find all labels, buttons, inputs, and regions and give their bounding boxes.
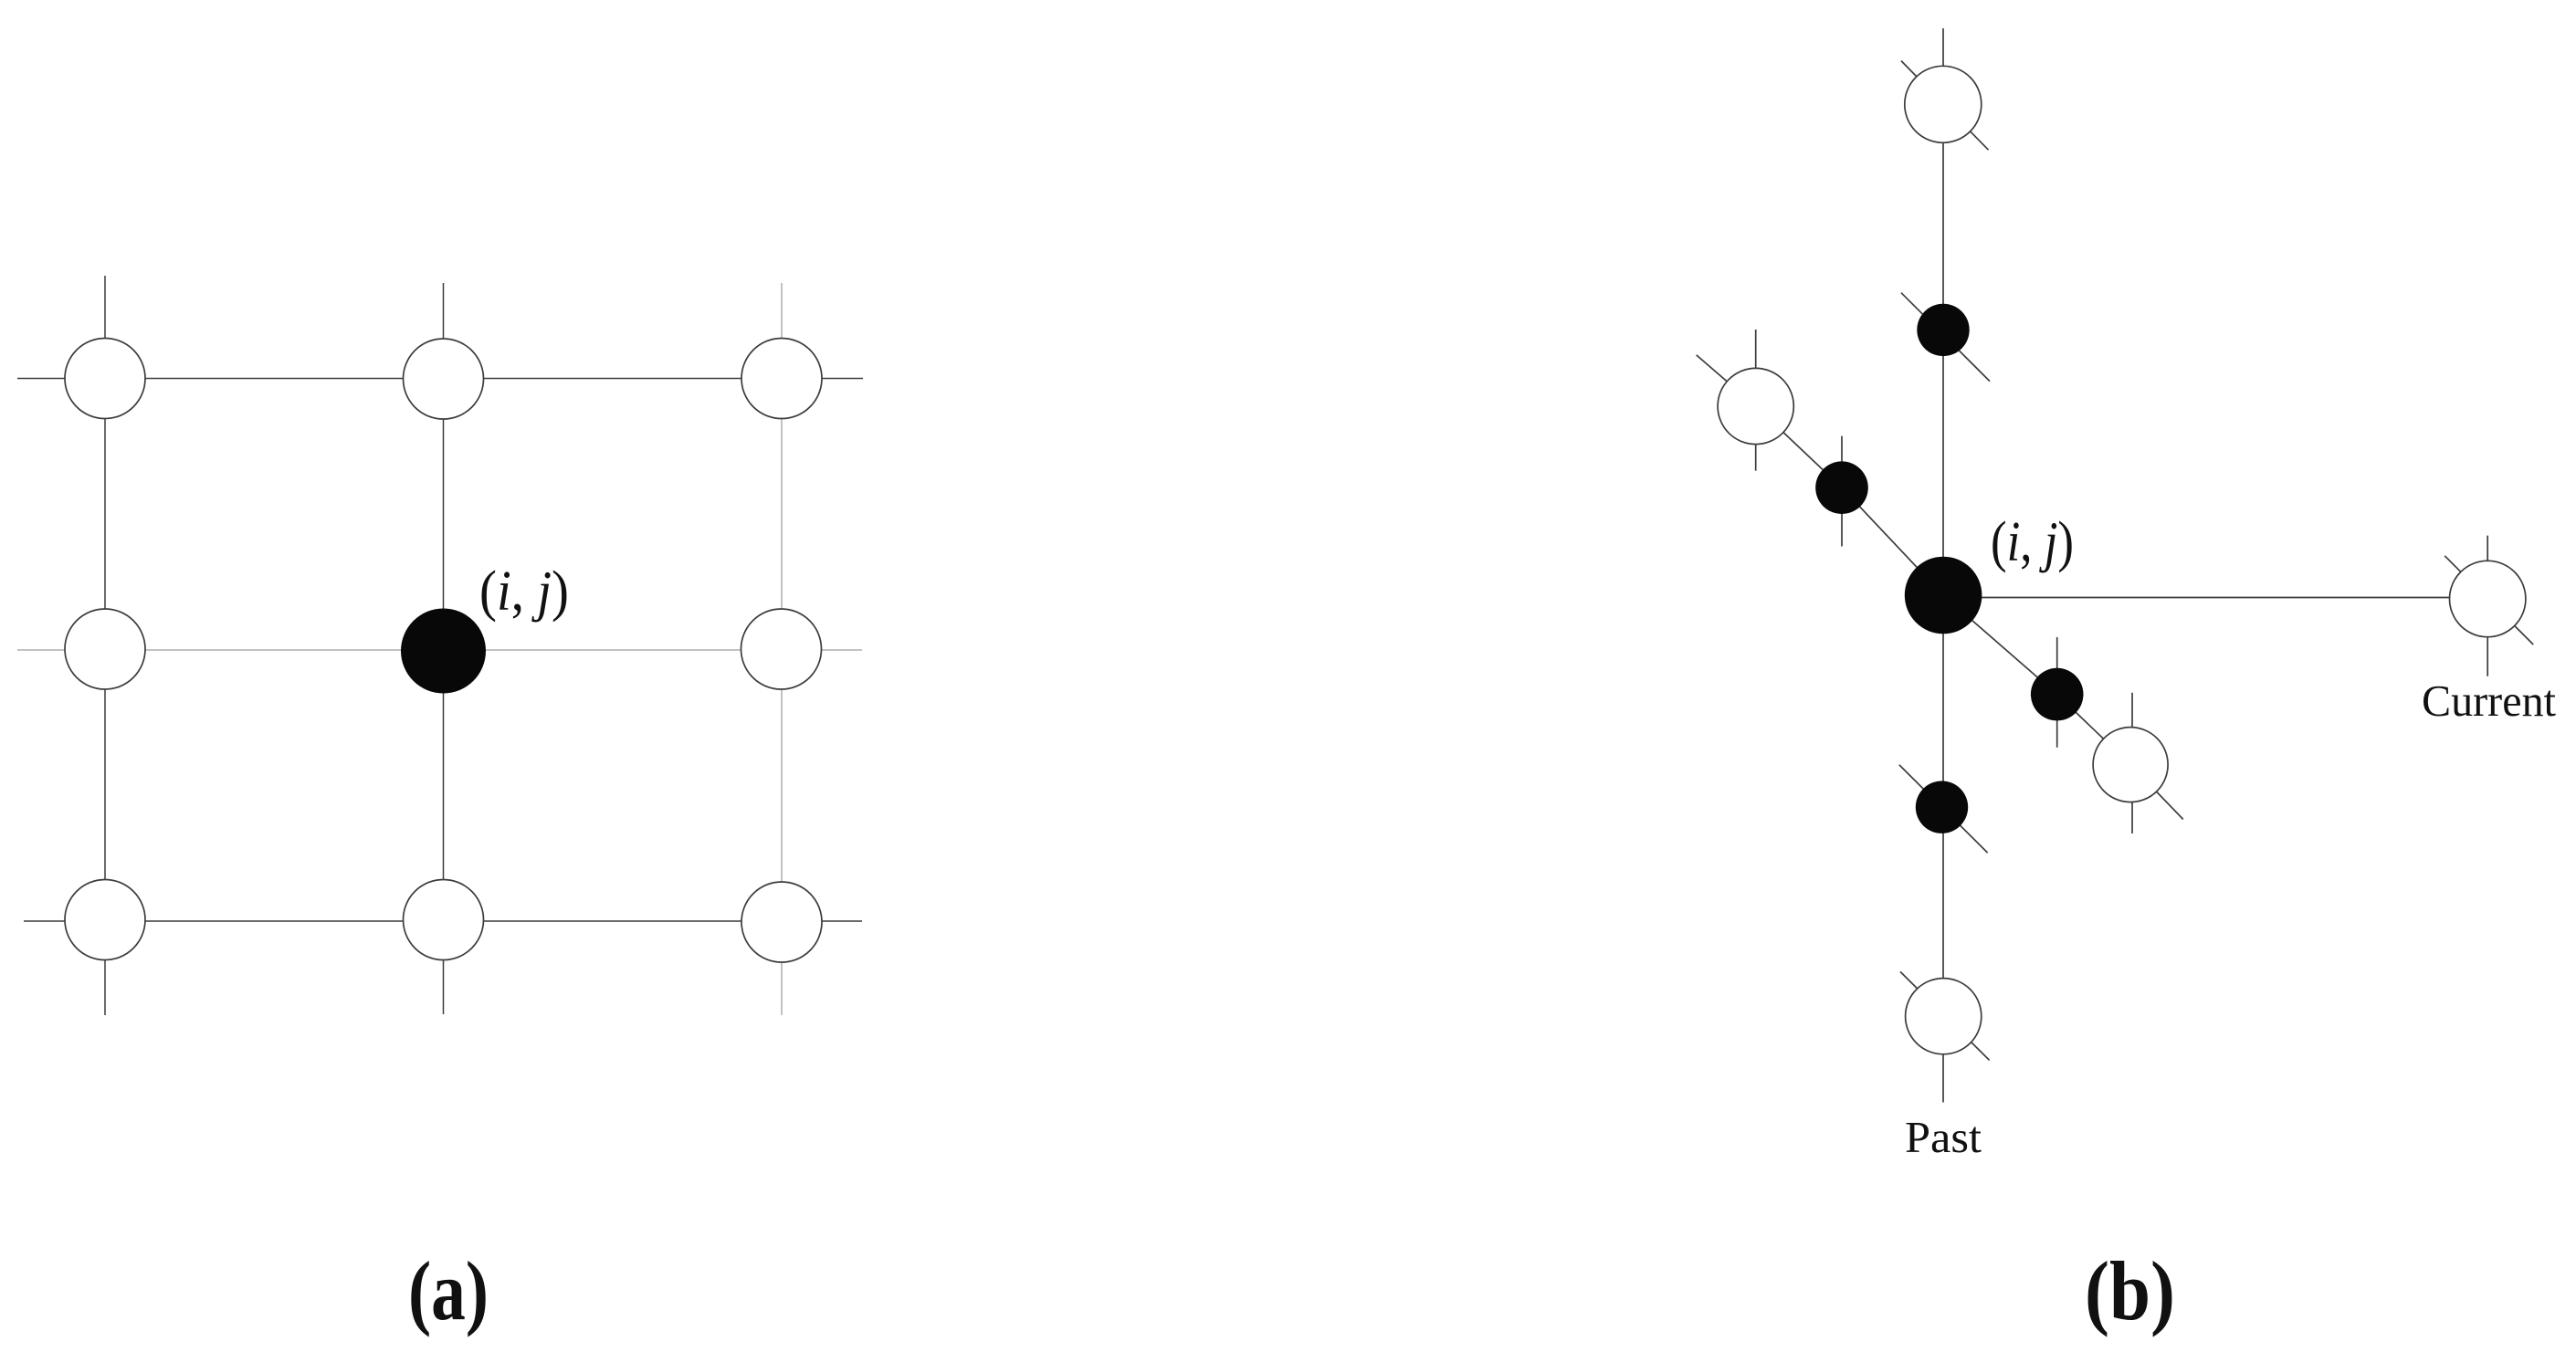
wire: column 1 vertical (dark) <box>104 276 106 1015</box>
node (a) bottom-left <box>65 880 145 960</box>
wire: column 3 vertical (light) <box>781 283 783 1015</box>
node (a) center (i,j) black <box>401 609 486 694</box>
wire: diagonal tick through black dot on vertical <box>1901 293 1990 382</box>
svg-text:(b): (b) <box>2085 1244 2175 1337</box>
wire: diagonal tick through top circle <box>1901 61 1989 151</box>
wire: up-left diagonal through UL circle and dot <box>1697 355 1943 595</box>
node (a) bottom-middle <box>404 880 484 960</box>
wire: vertical tick through LR circle <box>2131 693 2133 833</box>
wire: horizontal line to Current <box>1943 597 2487 599</box>
svg-text:(i, j): (i, j) <box>479 561 569 623</box>
wire: row 3 horizontal (dark) <box>24 920 862 922</box>
node (a) bottom-right <box>741 882 822 962</box>
wire: row 1 horizontal (dark) <box>17 378 863 380</box>
svg-text:(a): (a) <box>408 1244 489 1337</box>
wire: vertical tick through diagonal dot lower <box>2056 637 2058 748</box>
node (b) lower-right white circle <box>2093 728 2168 802</box>
node (b) black dot on down-right diagonal <box>2031 668 2084 721</box>
svg-text:Past: Past <box>1905 1112 1982 1162</box>
svg-text:(i, j): (i, j) <box>1991 511 2074 573</box>
wire: diagonal tick through black dot on vertical lower <box>1899 765 1988 853</box>
node (b) top white circle <box>1905 66 1982 142</box>
wire: vertical tick through Current circle <box>2487 536 2488 676</box>
node (b) black dot on vertical lower <box>1916 781 1968 833</box>
wire: column 2 vertical (dark) <box>443 283 445 1014</box>
wire: diagonal tick through bottom circle <box>1900 971 1990 1060</box>
wire: vertical tick through UL circle <box>1755 330 1757 471</box>
node (b) Current white circle <box>2450 561 2526 636</box>
wire: diagonal tick through Current circle <box>2445 556 2533 645</box>
wire: down-right diagonal through dot and LR circle <box>1943 595 2183 820</box>
node (a) middle-left <box>65 609 145 689</box>
node (b) central black circle (i,j) <box>1905 557 1982 634</box>
svg-text:Current: Current <box>2422 676 2556 726</box>
node (a) top-right <box>741 339 822 419</box>
node (a) top-left <box>65 339 145 419</box>
wire: main vertical line <box>1942 28 1944 1103</box>
wire: row 2 horizontal (light) <box>17 649 862 651</box>
node (b) upper-left white circle <box>1718 368 1793 444</box>
node (b) black dot on vertical upper <box>1917 304 1969 356</box>
wire: vertical tick through diagonal dot upper <box>1841 436 1843 547</box>
node (b) black dot on up-left diagonal <box>1815 461 1868 514</box>
node (a) top-middle <box>404 339 484 419</box>
node (b) bottom white circle (Past) <box>1906 979 1982 1054</box>
node (a) middle-right <box>741 609 822 689</box>
